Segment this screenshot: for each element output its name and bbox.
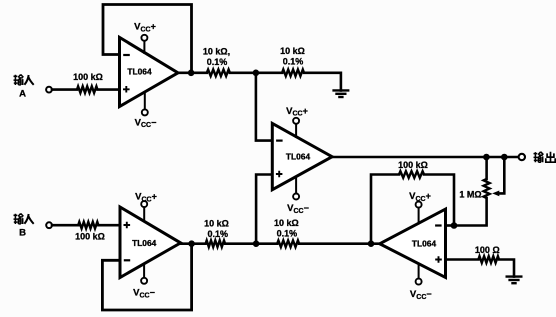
svg-text:100 kΩ: 100 kΩ xyxy=(398,160,428,170)
svg-text:0.1%: 0.1% xyxy=(207,229,228,239)
svg-text:0.1%: 0.1% xyxy=(283,56,304,66)
svg-text:B: B xyxy=(19,228,26,239)
svg-text:10 kΩ: 10 kΩ xyxy=(274,218,299,228)
svg-text:100 Ω: 100 Ω xyxy=(475,245,500,255)
svg-text:1 MΩ: 1 MΩ xyxy=(459,190,481,200)
svg-text:10 kΩ: 10 kΩ xyxy=(204,218,229,228)
svg-text:TL064: TL064 xyxy=(127,67,152,77)
svg-text:0.1%: 0.1% xyxy=(277,229,298,239)
svg-text:TL064: TL064 xyxy=(132,238,157,248)
svg-text:0.1%: 0.1% xyxy=(207,57,228,67)
svg-text:10 kΩ,: 10 kΩ, xyxy=(203,47,230,57)
svg-text:100 kΩ: 100 kΩ xyxy=(73,72,103,82)
svg-text:100 kΩ: 100 kΩ xyxy=(75,231,105,241)
svg-text:TL064: TL064 xyxy=(412,239,437,249)
svg-text:TL064: TL064 xyxy=(286,151,311,161)
svg-text:10 kΩ: 10 kΩ xyxy=(280,46,305,56)
svg-text:A: A xyxy=(19,89,26,100)
